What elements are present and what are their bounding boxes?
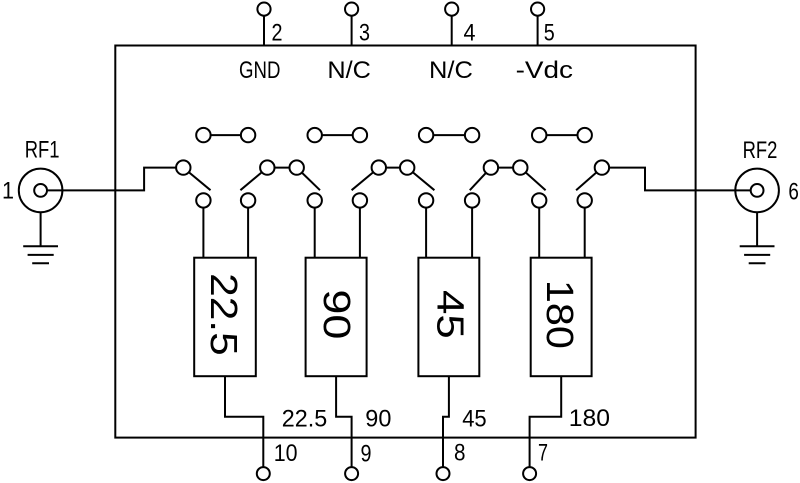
svg-text:1: 1 [2, 178, 14, 205]
switch common B left [372, 160, 386, 174]
wire output switch to RF2 [602, 168, 757, 191]
phase element 22.5 box [194, 258, 256, 377]
bypass contact 3R [465, 128, 479, 142]
bypass line section 1 [203, 134, 248, 136]
pin 10 circle [257, 467, 270, 480]
switch arm S4 output [576, 168, 602, 191]
element contact 3L [419, 193, 433, 207]
switch common C right [513, 160, 527, 174]
svg-text:2: 2 [272, 20, 283, 47]
bypass contact 3L [419, 128, 433, 142]
svg-text:90: 90 [315, 289, 357, 339]
switch arm B right [407, 168, 434, 191]
bypass contact 4R [578, 128, 592, 142]
RF2 ground [740, 246, 775, 263]
phase element 180 box [531, 258, 592, 377]
switch common A right [290, 160, 304, 174]
svg-text:5: 5 [544, 20, 555, 47]
bypass line section 3 [426, 134, 472, 136]
switch arm S1 input [183, 168, 210, 191]
svg-text:RF2: RF2 [743, 137, 778, 164]
element contact 2L [308, 193, 322, 207]
element contact 1R stem [247, 200, 249, 257]
element contact 3R stem [471, 200, 473, 257]
switch arm B left [352, 168, 379, 191]
RF1 ground stem [40, 212, 42, 246]
element contact 4L stem [538, 200, 540, 257]
switch common B right [400, 160, 414, 174]
switch arm C left [470, 168, 491, 191]
switch common A left [260, 160, 274, 174]
bypass contact 1L [196, 128, 210, 142]
wire element 3 to pin 8 [443, 376, 449, 467]
RF1 connector inner circle [34, 184, 47, 197]
wire element 1 to pin 10 [225, 376, 263, 467]
bypass contact 4L [532, 128, 546, 142]
wire pair B commons [379, 167, 407, 169]
svg-text:45: 45 [462, 406, 487, 433]
switch arm A left [240, 168, 267, 191]
svg-text:6: 6 [788, 178, 799, 205]
switch arm C right [520, 168, 545, 191]
wire pair C commons [491, 167, 520, 169]
svg-text:3: 3 [359, 20, 370, 47]
svg-text:90: 90 [365, 405, 391, 432]
element contact 1R [241, 193, 255, 207]
package outline box [115, 46, 695, 438]
svg-text:8: 8 [454, 440, 466, 467]
phase element 45 box [418, 258, 479, 377]
element contact 3R [465, 193, 479, 207]
switch common S4 output [595, 160, 609, 174]
pin 4 stem [451, 9, 453, 46]
RF2 connector inner circle [751, 184, 764, 197]
pin 4 circle [445, 3, 458, 16]
wire pair A commons [267, 167, 296, 169]
svg-text:RF1: RF1 [25, 137, 60, 164]
bypass line section 2 [315, 134, 360, 136]
svg-text:7: 7 [538, 440, 548, 467]
pin 7 circle [523, 467, 536, 480]
element contact 2R [353, 193, 367, 207]
RF2 ground stem [756, 212, 758, 246]
svg-text:N/C: N/C [327, 57, 371, 84]
switch common S1 input [176, 160, 190, 174]
bypass line section 4 [539, 134, 585, 136]
RF1 connector outer circle [19, 169, 63, 213]
pin 3 stem [351, 9, 353, 46]
pin 8 circle [437, 467, 450, 480]
pin 2 stem [263, 9, 265, 46]
pin 9 circle [345, 467, 358, 480]
wire element 2 to pin 9 [336, 376, 352, 467]
pin 5 stem [537, 9, 539, 46]
wire RF1 to input switch [47, 168, 183, 191]
RF2 connector outer circle [735, 169, 779, 213]
element contact 3L stem [425, 200, 427, 257]
svg-text:180: 180 [538, 280, 580, 349]
bypass contact 2R [353, 128, 367, 142]
element contact 1L [196, 193, 210, 207]
RF1 ground [23, 246, 58, 263]
element contact 1L stem [202, 200, 204, 257]
element contact 2L stem [314, 200, 316, 257]
pin 3 circle [345, 3, 358, 16]
pin 2 circle [257, 3, 270, 16]
element contact 4R stem [584, 200, 586, 257]
phase element 90 box [306, 258, 367, 377]
element contact 4L [532, 193, 546, 207]
element contact 2R stem [359, 200, 361, 257]
bypass contact 2L [308, 128, 322, 142]
element contact 4R [578, 193, 592, 207]
svg-text:10: 10 [274, 440, 298, 467]
svg-text:180: 180 [569, 405, 610, 432]
svg-text:4: 4 [464, 20, 476, 47]
pin 5 circle [531, 3, 544, 16]
svg-text:22.5: 22.5 [282, 406, 327, 433]
svg-text:GND: GND [239, 57, 280, 84]
svg-text:N/C: N/C [429, 57, 473, 84]
svg-text:22.5: 22.5 [202, 273, 244, 356]
wire element 4 to pin 7 [530, 376, 562, 467]
bypass contact 1R [241, 128, 255, 142]
switch common C left [484, 160, 498, 174]
svg-text:-Vdc: -Vdc [516, 57, 573, 84]
svg-text:45: 45 [429, 290, 471, 339]
switch arm A right [297, 168, 320, 191]
svg-text:9: 9 [361, 440, 372, 467]
